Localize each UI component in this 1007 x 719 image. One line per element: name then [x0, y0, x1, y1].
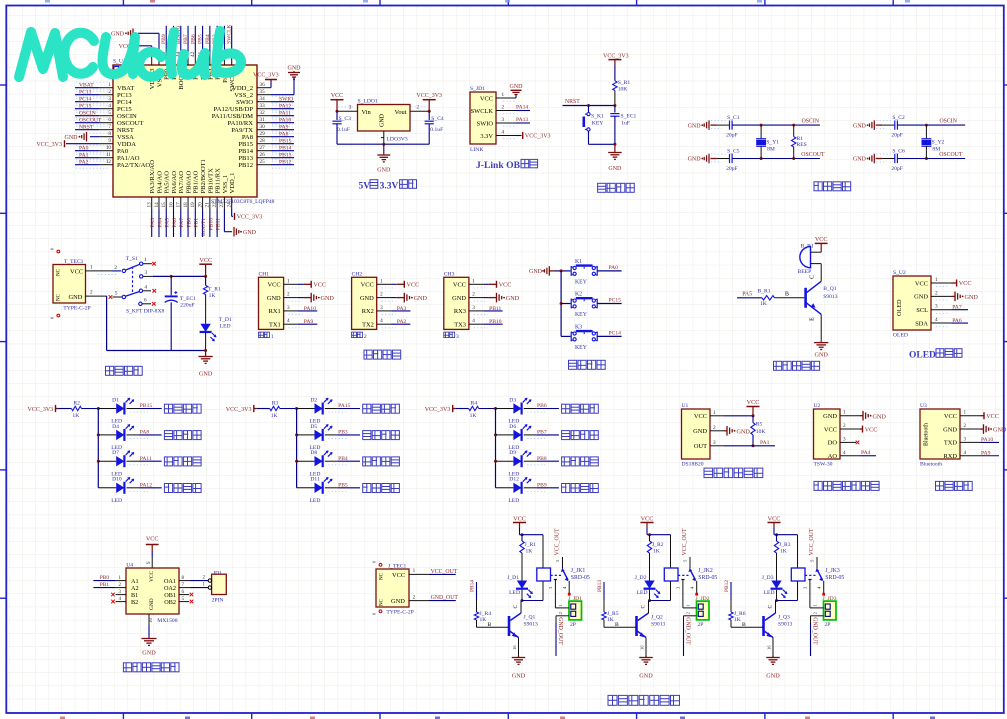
- svg-text:PB14: PB14: [470, 580, 476, 592]
- svg-text:PA1: PA1: [79, 153, 89, 159]
- svg-text:1: 1: [843, 410, 846, 416]
- svg-text:D2: D2: [310, 397, 317, 403]
- svg-text:10K: 10K: [756, 429, 766, 435]
- svg-text:VCC: VCC: [480, 95, 493, 102]
- svg-text:MX1508: MX1508: [157, 618, 177, 624]
- svg-text:S_C5: S_C5: [727, 148, 740, 154]
- svg-text:SWIO: SWIO: [236, 99, 253, 106]
- svg-text:PB11: PB11: [489, 306, 501, 312]
- svg-text:1K: 1K: [470, 413, 477, 419]
- svg-text:VCC_3V3: VCC_3V3: [603, 54, 629, 60]
- svg-text:OSCIN: OSCIN: [79, 111, 96, 117]
- svg-text:S_C3: S_C3: [339, 116, 352, 122]
- svg-text:3: 3: [380, 305, 383, 311]
- svg-text:PB5: PB5: [198, 34, 204, 44]
- svg-text:GND: GND: [65, 135, 79, 141]
- svg-text:PC15: PC15: [117, 106, 132, 113]
- svg-text:D3: D3: [509, 397, 516, 403]
- svg-text:B: B: [615, 622, 619, 628]
- svg-text:GND: GND: [512, 673, 526, 680]
- svg-text:PA3/RX/AO: PA3/RX/AO: [149, 160, 156, 194]
- svg-text:B_B1: B_B1: [801, 243, 814, 249]
- svg-text:6: 6: [108, 117, 111, 123]
- svg-text:GND_OUT: GND_OUT: [557, 617, 563, 645]
- svg-text:PA10: PA10: [981, 437, 993, 443]
- svg-text:2: 2: [364, 334, 367, 340]
- svg-text:12: 12: [106, 159, 112, 165]
- svg-text:VCC: VCC: [70, 269, 83, 276]
- svg-text:GND: GND: [243, 230, 257, 236]
- svg-text:PA6: PA6: [952, 318, 962, 324]
- svg-text:2PIN: 2PIN: [212, 598, 224, 604]
- svg-text:TX1: TX1: [269, 322, 281, 329]
- svg-text:VCC: VCC: [453, 282, 466, 289]
- svg-text:VCC: VCC: [392, 572, 405, 579]
- svg-text:10: 10: [149, 618, 154, 624]
- svg-text:PB12: PB12: [238, 162, 253, 169]
- svg-text:K3: K3: [575, 324, 582, 330]
- svg-text:4: 4: [287, 318, 290, 324]
- svg-text:VCC: VCC: [959, 280, 972, 287]
- svg-text:S9013: S9013: [524, 622, 539, 628]
- svg-text:C: C: [513, 605, 519, 609]
- svg-text:VBAT: VBAT: [117, 85, 134, 92]
- svg-text:PB0: PB0: [186, 218, 192, 228]
- svg-text:PA7/AO: PA7/AO: [178, 171, 185, 194]
- svg-text:S_C4: S_C4: [431, 116, 444, 122]
- svg-text:6: 6: [144, 297, 147, 303]
- svg-text:3: 3: [349, 105, 352, 111]
- svg-text:3: 3: [502, 117, 505, 123]
- svg-text:VCC_3V3: VCC_3V3: [425, 407, 451, 413]
- svg-text:PA11: PA11: [279, 111, 291, 117]
- svg-text:VCC_OUT: VCC_OUT: [809, 528, 815, 555]
- svg-text:16: 16: [767, 645, 772, 650]
- svg-text:20pF: 20pF: [891, 133, 903, 139]
- svg-text:PB14: PB14: [238, 148, 253, 155]
- svg-text:J_JK2: J_JK2: [698, 568, 713, 574]
- svg-text:D4: D4: [112, 424, 119, 430]
- svg-text:35: 35: [260, 89, 266, 95]
- svg-text:4: 4: [935, 317, 938, 323]
- svg-text:0.1uF: 0.1uF: [430, 127, 443, 133]
- svg-text:SCL: SCL: [916, 307, 928, 314]
- svg-text:2: 2: [713, 425, 716, 431]
- svg-text:PA5/AO: PA5/AO: [164, 171, 171, 194]
- svg-text:PA10/RX: PA10/RX: [228, 120, 254, 127]
- svg-text:PA0: PA0: [117, 148, 129, 155]
- svg-text:GND: GND: [377, 168, 391, 174]
- svg-text:VBAT: VBAT: [79, 83, 94, 89]
- svg-text:1K: 1K: [734, 617, 741, 623]
- svg-text:J_JK1: J_JK1: [571, 568, 586, 574]
- svg-text:PB7: PB7: [537, 430, 547, 436]
- svg-text:1: 1: [108, 82, 111, 88]
- svg-text:11: 11: [106, 152, 111, 158]
- svg-text:BEEP: BEEP: [798, 269, 812, 275]
- svg-text:1: 1: [287, 278, 290, 284]
- svg-text:GND: GND: [853, 123, 867, 129]
- svg-text:VCC: VCC: [313, 282, 326, 289]
- svg-text:PA4: PA4: [157, 218, 163, 228]
- svg-text:PC14: PC14: [117, 99, 132, 106]
- svg-text:PA3: PA3: [397, 306, 407, 312]
- svg-text:VCC: VCC: [944, 413, 957, 420]
- svg-text:8M: 8M: [767, 146, 775, 152]
- svg-text:16: 16: [168, 202, 174, 208]
- svg-text:SWIO: SWIO: [279, 97, 293, 103]
- svg-text:PB0: PB0: [100, 575, 110, 581]
- svg-text:TXD: TXD: [944, 440, 958, 447]
- svg-text:R1: R1: [797, 136, 804, 142]
- svg-text:PA3: PA3: [150, 218, 156, 228]
- svg-text:GND: GND: [321, 295, 335, 302]
- svg-text:2P: 2P: [825, 622, 831, 628]
- svg-text:J-Link OB: J-Link OB: [476, 160, 521, 171]
- svg-text:OA2: OA2: [164, 585, 176, 592]
- svg-text:17: 17: [176, 202, 182, 208]
- svg-text:VCC_3V3: VCC_3V3: [416, 93, 442, 99]
- svg-text:GND: GND: [693, 428, 707, 435]
- svg-text:D9: D9: [509, 450, 516, 456]
- svg-text:1K: 1K: [526, 549, 533, 555]
- svg-text:1K: 1K: [760, 301, 767, 307]
- svg-text:VCC_OUT: VCC_OUT: [431, 569, 458, 575]
- svg-text:2: 2: [114, 265, 117, 271]
- svg-text:1: 1: [144, 257, 147, 263]
- svg-text:2: 2: [417, 105, 420, 111]
- svg-text:K2: K2: [575, 291, 582, 297]
- svg-text:2: 2: [472, 292, 475, 298]
- svg-text:PB1: PB1: [100, 582, 110, 588]
- svg-text:PA7: PA7: [952, 304, 962, 310]
- svg-text:VCC: VCC: [361, 282, 374, 289]
- svg-text:PB10: PB10: [208, 218, 214, 231]
- svg-text:1K: 1K: [72, 413, 79, 419]
- svg-text:GND_OUT: GND_OUT: [684, 617, 690, 645]
- svg-text:J_TEC1: J_TEC1: [388, 563, 407, 569]
- svg-text:CH1: CH1: [259, 272, 270, 278]
- svg-text:K1: K1: [575, 259, 582, 265]
- svg-text:LED: LED: [508, 498, 519, 504]
- svg-text:RES: RES: [797, 142, 807, 148]
- svg-text:TYPE-C-2P: TYPE-C-2P: [386, 610, 413, 616]
- svg-text:SWCLK: SWCLK: [227, 24, 233, 44]
- svg-text:3.3V: 3.3V: [380, 182, 399, 192]
- svg-text:SRD-05: SRD-05: [825, 575, 844, 581]
- svg-text:VCC: VCC: [694, 413, 707, 420]
- svg-text:GND: GND: [142, 650, 156, 657]
- svg-text:GND: GND: [943, 426, 957, 433]
- svg-text:PB10/TX: PB10/TX: [207, 168, 214, 194]
- svg-text:VCC_3V3: VCC_3V3: [36, 142, 62, 148]
- svg-text:2: 2: [90, 290, 93, 296]
- svg-text:R5: R5: [756, 422, 763, 428]
- svg-text:E: E: [810, 317, 816, 321]
- svg-text:22: 22: [212, 202, 218, 208]
- svg-text:S_JD1: S_JD1: [470, 86, 485, 92]
- svg-text:2: 2: [502, 105, 505, 111]
- svg-text:NC: NC: [57, 293, 62, 301]
- svg-text:GND: GND: [823, 413, 837, 420]
- svg-text:4: 4: [108, 103, 111, 109]
- svg-text:OSCOUT: OSCOUT: [801, 152, 825, 158]
- svg-text:Vout: Vout: [395, 109, 407, 116]
- svg-text:31: 31: [260, 117, 266, 123]
- svg-text:VCC_3V3: VCC_3V3: [226, 407, 252, 413]
- svg-text:VCC_OUT: VCC_OUT: [555, 528, 561, 555]
- svg-text:1K: 1K: [607, 617, 614, 623]
- svg-text:14: 14: [154, 202, 160, 208]
- svg-text:VCC: VCC: [986, 413, 999, 420]
- svg-text:B: B: [488, 622, 492, 628]
- svg-text:PA1: PA1: [760, 440, 770, 446]
- svg-text:PA13: PA13: [516, 117, 528, 123]
- svg-text:2: 2: [287, 292, 290, 298]
- svg-text:PB9: PB9: [537, 482, 547, 488]
- svg-text:1K: 1K: [271, 413, 278, 419]
- svg-text:Bluetooth: Bluetooth: [924, 423, 930, 446]
- svg-text:A1: A1: [131, 578, 139, 585]
- svg-text:LED: LED: [637, 590, 648, 596]
- svg-text:PB4: PB4: [338, 456, 348, 462]
- svg-text:33: 33: [260, 103, 266, 109]
- svg-text:GND: GND: [267, 295, 281, 302]
- svg-text:36: 36: [260, 82, 266, 88]
- svg-text:RX3: RX3: [454, 308, 466, 315]
- svg-text:KEY: KEY: [592, 121, 604, 127]
- svg-text:29: 29: [260, 131, 266, 137]
- svg-text:0.1uF: 0.1uF: [337, 127, 350, 133]
- svg-text:R2: R2: [73, 400, 80, 406]
- svg-text:C: C: [810, 275, 816, 279]
- svg-text:GND: GND: [391, 598, 405, 605]
- svg-text:J_Q1: J_Q1: [524, 614, 536, 620]
- svg-text:VCC_3V3: VCC_3V3: [28, 407, 54, 413]
- svg-text:NRST: NRST: [79, 125, 94, 131]
- svg-text:GND: GND: [914, 294, 928, 301]
- svg-text:B: B: [785, 291, 789, 297]
- svg-text:S_C2: S_C2: [892, 115, 905, 121]
- svg-text:PA10: PA10: [304, 306, 316, 312]
- svg-text:B_Q1: B_Q1: [823, 286, 837, 292]
- svg-text:3: 3: [287, 305, 290, 311]
- svg-text:NC: NC: [380, 598, 385, 606]
- svg-text:R3: R3: [272, 400, 279, 406]
- svg-text:VCC: VCC: [815, 236, 828, 243]
- svg-text:OLED: OLED: [893, 333, 908, 339]
- svg-text:PC15: PC15: [609, 298, 622, 304]
- svg-text:PB11/RX: PB11/RX: [215, 168, 222, 194]
- svg-text:B_R1: B_R1: [758, 289, 771, 295]
- svg-text:PA5: PA5: [742, 292, 752, 298]
- svg-text:LED: LED: [509, 590, 520, 596]
- svg-text:PC14: PC14: [79, 97, 92, 103]
- svg-text:PA9: PA9: [981, 450, 991, 456]
- svg-text:3.3V: 3.3V: [480, 133, 493, 140]
- svg-text:OB2: OB2: [164, 599, 176, 606]
- svg-text:SRD-05: SRD-05: [698, 575, 717, 581]
- svg-text:Bluetooth: Bluetooth: [920, 462, 942, 468]
- svg-text:GND: GND: [510, 84, 524, 90]
- svg-text:C: C: [768, 605, 774, 609]
- svg-text:VCC_3V3: VCC_3V3: [253, 73, 279, 79]
- svg-text:J_R3: J_R3: [779, 542, 791, 548]
- svg-text:B: B: [742, 622, 746, 628]
- svg-text:RXD: RXD: [944, 453, 958, 460]
- svg-text:KEY: KEY: [575, 345, 588, 351]
- svg-text:GND: GND: [853, 157, 867, 163]
- svg-text:PA2: PA2: [79, 160, 89, 166]
- svg-text:TSW-30: TSW-30: [814, 462, 833, 468]
- svg-text:DO: DO: [828, 440, 838, 447]
- svg-text:1: 1: [413, 568, 416, 574]
- svg-text:PA0: PA0: [609, 265, 619, 271]
- svg-text:VCC: VCC: [146, 536, 159, 543]
- svg-text:OLED: OLED: [896, 299, 903, 316]
- svg-text:PA1/AO: PA1/AO: [117, 155, 140, 162]
- svg-text:S9013: S9013: [823, 294, 838, 300]
- svg-text:PB6: PB6: [190, 34, 196, 44]
- svg-text:D11: D11: [310, 477, 320, 483]
- svg-text:VCC_3V3: VCC_3V3: [525, 134, 551, 140]
- svg-text:GND: GND: [69, 294, 83, 301]
- svg-text:PA12/USB/DP: PA12/USB/DP: [214, 106, 254, 113]
- svg-text:4: 4: [843, 450, 846, 456]
- svg-text:18: 18: [183, 202, 189, 208]
- svg-text:RX1: RX1: [269, 308, 281, 315]
- svg-text:VCC: VCC: [641, 515, 654, 522]
- svg-text:GND: GND: [873, 413, 887, 420]
- svg-text:GND_OUT: GND_OUT: [811, 617, 817, 645]
- svg-text:26: 26: [260, 152, 266, 158]
- svg-text:GND: GND: [529, 269, 543, 275]
- svg-text:PA0: PA0: [79, 146, 89, 152]
- svg-text:GND: GND: [452, 295, 466, 302]
- svg-text:GND: GND: [688, 123, 702, 129]
- svg-text:1K: 1K: [653, 549, 660, 555]
- svg-text:28: 28: [260, 138, 266, 144]
- svg-text:J_D3: J_D3: [762, 575, 774, 581]
- svg-text:RX2: RX2: [362, 308, 374, 315]
- svg-text:PB3: PB3: [338, 430, 348, 436]
- svg-text:R4: R4: [471, 400, 478, 406]
- svg-text:3: 3: [843, 436, 846, 442]
- svg-text:VCC_OUT: VCC_OUT: [682, 528, 688, 555]
- svg-text:OSCIN: OSCIN: [940, 119, 958, 125]
- svg-text:VDDA: VDDA: [117, 141, 136, 148]
- svg-text:J_Q3: J_Q3: [778, 614, 790, 620]
- svg-text:4: 4: [380, 318, 383, 324]
- svg-text:PC14: PC14: [609, 330, 622, 336]
- svg-text:4: 4: [964, 450, 967, 456]
- svg-text:S_C6: S_C6: [892, 148, 905, 154]
- svg-text:27: 27: [260, 145, 266, 151]
- svg-text:LED: LED: [764, 590, 775, 596]
- svg-text:1: 1: [713, 410, 716, 416]
- svg-text:VCC: VCC: [149, 571, 155, 582]
- svg-text:U2: U2: [814, 403, 821, 409]
- svg-text:PA10: PA10: [279, 118, 291, 124]
- svg-text:NRST: NRST: [565, 99, 580, 105]
- svg-text:1K: 1K: [780, 549, 787, 555]
- svg-text:1: 1: [472, 278, 475, 284]
- svg-text:2: 2: [843, 423, 846, 429]
- svg-text:TYPE-C-2P: TYPE-C-2P: [63, 306, 90, 312]
- svg-text:PA2/TX/AO: PA2/TX/AO: [117, 162, 150, 169]
- svg-text:T_EC1: T_EC1: [180, 296, 196, 302]
- svg-text:3: 3: [145, 270, 148, 276]
- svg-text:PA9: PA9: [279, 125, 289, 131]
- svg-text:VCC: VCC: [407, 282, 420, 289]
- svg-text:GND: GND: [814, 352, 828, 359]
- svg-text:OSCIN: OSCIN: [117, 113, 137, 120]
- svg-text:20pF: 20pF: [726, 166, 738, 172]
- svg-text:7: 7: [108, 124, 111, 130]
- svg-text:PA11: PA11: [140, 456, 152, 462]
- svg-text:PB10: PB10: [489, 319, 502, 325]
- svg-text:B1: B1: [131, 592, 138, 599]
- svg-text:D1: D1: [112, 397, 119, 403]
- svg-text:PB1/AO: PB1/AO: [193, 171, 200, 194]
- svg-text:VSS_2: VSS_2: [234, 92, 253, 99]
- svg-text:PA8: PA8: [242, 134, 254, 141]
- svg-text:LED: LED: [310, 498, 321, 504]
- svg-text:5V: 5V: [359, 182, 371, 192]
- svg-text:PA2: PA2: [397, 319, 407, 325]
- svg-text:GND: GND: [414, 295, 428, 302]
- svg-text:30: 30: [260, 124, 266, 130]
- svg-text:PB8: PB8: [537, 456, 547, 462]
- svg-text:2: 2: [380, 292, 383, 298]
- svg-text:PA6/AO: PA6/AO: [171, 171, 178, 194]
- svg-text:SRD-05: SRD-05: [571, 575, 590, 581]
- svg-text:B2: B2: [131, 599, 138, 606]
- svg-text:GND: GND: [965, 294, 979, 301]
- svg-text:8: 8: [108, 131, 111, 137]
- svg-text:1: 1: [502, 92, 505, 98]
- svg-text:LED: LED: [111, 498, 122, 504]
- svg-text:3: 3: [472, 305, 475, 311]
- svg-text:PB6: PB6: [537, 403, 547, 409]
- svg-text:3: 3: [964, 436, 967, 442]
- svg-text:VCC: VCC: [331, 93, 343, 99]
- svg-text:PA15: PA15: [338, 403, 350, 409]
- svg-text:GND: GND: [766, 673, 780, 680]
- svg-text:D7: D7: [112, 450, 119, 456]
- svg-text:TX2: TX2: [362, 322, 374, 329]
- svg-text:LDO3V3: LDO3V3: [387, 137, 408, 143]
- svg-text:S_LDO1: S_LDO1: [358, 99, 378, 105]
- svg-text:PB13: PB13: [597, 580, 603, 592]
- svg-text:NC: NC: [380, 572, 385, 580]
- svg-text:10K: 10K: [618, 86, 628, 92]
- svg-text:U3: U3: [920, 403, 927, 409]
- svg-text:T_TEC1: T_TEC1: [64, 259, 84, 265]
- svg-text:PA6: PA6: [172, 218, 178, 228]
- svg-text:D12: D12: [509, 477, 519, 483]
- svg-text:J_JK3: J_JK3: [825, 568, 840, 574]
- svg-text:9: 9: [108, 138, 111, 144]
- svg-text:D6: D6: [509, 424, 516, 430]
- svg-text:1K: 1K: [480, 617, 487, 623]
- svg-text:PB15: PB15: [140, 403, 153, 409]
- svg-text:1K: 1K: [209, 293, 216, 299]
- svg-text:T_R1: T_R1: [208, 286, 221, 292]
- svg-text:1: 1: [90, 264, 93, 270]
- svg-text:PB13: PB13: [238, 155, 253, 162]
- svg-text:PB1: PB1: [194, 218, 200, 228]
